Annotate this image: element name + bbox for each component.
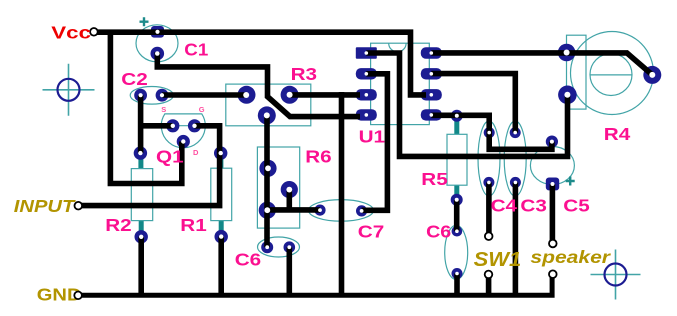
capacitor C5 pad bodies xyxy=(546,136,559,191)
capacitor C3 outline xyxy=(504,121,526,196)
resistor R5 lead stubs xyxy=(454,117,459,198)
connector pad INPUT xyxy=(75,202,83,210)
capacitor C5 outline xyxy=(530,147,574,185)
svg-text:R5: R5 xyxy=(421,169,448,189)
resistor R3 outline xyxy=(226,84,311,126)
wire U1 pin 5 to R5 C4 C5 xyxy=(431,115,552,149)
resistor R3 pad bodies xyxy=(238,86,299,125)
wire U1 pin 2 to C7 xyxy=(362,74,388,211)
capacitor C4 outline xyxy=(478,121,500,196)
wire C2 to R3 xyxy=(162,92,246,98)
crosshair target bottom-right arms xyxy=(591,250,641,300)
svg-text:R3: R3 xyxy=(291,64,318,84)
svg-text:C5: C5 xyxy=(563,196,590,216)
resistor R2 outline xyxy=(131,169,152,221)
wire C4 to SW1 xyxy=(486,182,492,236)
svg-text:Q1: Q1 xyxy=(156,147,184,167)
resistor R1 outline xyxy=(211,168,232,220)
svg-text:C7: C7 xyxy=(358,222,384,242)
svg-text:G: G xyxy=(199,105,205,114)
capacitor C2 outline xyxy=(130,87,173,105)
wire GND rail xyxy=(78,274,552,295)
wire C6 to GND rail xyxy=(286,247,292,293)
wire R2 to GND rail xyxy=(138,237,144,293)
svg-text:R2: R2 xyxy=(105,215,131,235)
resistor R1 lead stubs xyxy=(218,154,223,235)
capacitor C6 outline near R6 xyxy=(258,237,300,257)
capacitor C1 pad bodies xyxy=(151,26,165,60)
resistor R5 pad bodies xyxy=(451,110,463,206)
svg-text:C6: C6 xyxy=(426,221,451,241)
svg-text:U1: U1 xyxy=(359,127,386,147)
wire C5 to speaker xyxy=(550,184,556,244)
svg-text:Vcc: Vcc xyxy=(51,23,91,43)
resistor R5 outline xyxy=(447,134,467,185)
wire U1 pin 7 to C3 xyxy=(431,74,515,133)
transistor Q1 outline xyxy=(161,114,205,148)
wire R1 to GND rail xyxy=(218,237,224,293)
wire R5 to C6 xyxy=(454,200,460,231)
wire R3 middle to R6 to C6 xyxy=(264,115,270,247)
resistor R6 pad bodies xyxy=(259,160,298,219)
potentiometer R4 outline xyxy=(567,32,654,115)
capacitor C1 outline xyxy=(136,25,178,62)
capacitor C3 pad bodies xyxy=(510,127,521,188)
svg-text:R4: R4 xyxy=(604,124,631,144)
wire C2 to R2 top xyxy=(138,95,144,153)
resistor R6 outline xyxy=(257,147,299,228)
svg-text:R6: R6 xyxy=(305,147,332,167)
crosshair target top-left circle xyxy=(58,79,80,101)
svg-text:C2: C2 xyxy=(121,69,147,89)
connector pad GND xyxy=(74,292,82,300)
connector pads speaker xyxy=(549,240,557,278)
resistor R2 lead stubs xyxy=(138,154,143,235)
wire node to Q1 source xyxy=(141,123,173,129)
resistor R2 pad bodies xyxy=(134,146,148,243)
capacitor C6 outline near R5 xyxy=(445,225,468,279)
svg-text:C4: C4 xyxy=(491,196,518,216)
svg-text:D: D xyxy=(193,148,199,157)
capacitor C7 outline xyxy=(309,200,374,222)
wire R6 middle pin stub xyxy=(286,190,292,210)
potentiometer R4 pad bodies xyxy=(558,44,662,104)
wire C1 to U1 pin 4 xyxy=(157,52,360,117)
crosshair target top-left arms xyxy=(43,64,95,116)
capacitor C1 plus mark xyxy=(140,17,149,26)
svg-text:S: S xyxy=(161,105,166,114)
wire Q1 gate to R1 to INPUT xyxy=(80,126,220,206)
wire Vcc rail to U1 pin 6 xyxy=(94,32,426,95)
svg-text:R1: R1 xyxy=(180,215,207,235)
connector pads SW1 xyxy=(485,232,493,278)
svg-text:C3: C3 xyxy=(520,196,547,216)
wire R3 to U1 pin 3 xyxy=(290,92,360,98)
wire C3 to GND rail xyxy=(513,182,519,295)
transistor Q1 pad bodies xyxy=(166,119,201,148)
svg-text:speaker: speaker xyxy=(530,247,611,267)
crosshair target bottom-right circle xyxy=(605,264,627,286)
wire R6 to C7 xyxy=(267,207,320,213)
capacitor C2 pad bodies xyxy=(134,89,168,102)
wire U1 pin 1 to R4 wiper xyxy=(366,53,567,156)
IC U1 pad bodies xyxy=(356,47,442,120)
svg-text:C1: C1 xyxy=(184,39,208,60)
IC U1 outline xyxy=(371,43,430,124)
capacitor C6 pad bodies near R5 xyxy=(452,226,463,279)
wire U1 pin 8 to R4 xyxy=(431,53,652,75)
wire C6 to GND stub xyxy=(454,274,460,296)
connector pad Vcc xyxy=(90,28,98,36)
pad drill holes xyxy=(138,30,655,276)
capacitor C4 pad bodies xyxy=(483,127,494,188)
wire Vcc rail to Q1 drain xyxy=(110,32,181,184)
capacitor C5 plus mark xyxy=(566,177,575,186)
svg-text:C6: C6 xyxy=(235,250,262,270)
capacitor C7 pad bodies xyxy=(314,205,367,217)
wire U1 pin 3 net to GND rail xyxy=(339,92,345,295)
capacitor C6 pad bodies near R6 xyxy=(261,241,295,253)
svg-text:INPUT: INPUT xyxy=(14,197,77,217)
resistor R1 pad bodies xyxy=(214,146,228,243)
wire SW1 to GND stub xyxy=(486,274,492,295)
svg-text:SW1: SW1 xyxy=(474,249,522,271)
